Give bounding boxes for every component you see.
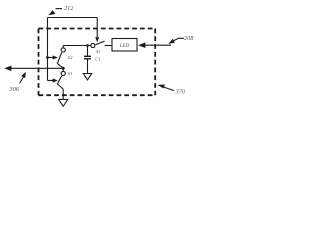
node junction at capacitor tap [86,44,89,47]
switch S1 [62,68,64,71]
wire branch arrow to S2 blade [48,57,54,59]
label 306 arrowhead [21,72,26,78]
svg-text:212: 212 [64,5,74,12]
label 208 arrowhead [168,39,175,44]
capacitor C1 [87,46,89,57]
svg-text:S3: S3 [96,49,101,54]
svg-text:C1: C1 [95,57,100,62]
svg-text:S1: S1 [68,71,73,76]
LED indicator box [112,39,137,52]
label 208 leader [174,38,185,41]
wire from right entering LED [145,44,171,46]
label 370 leader [163,87,175,91]
wire left vertical drop [47,18,49,81]
arrowhead exiting left [4,66,11,71]
wire branch arrow to S1 blade [48,80,54,82]
svg-text:370: 370 [175,88,186,95]
ground open arrow below box [59,99,68,106]
dashed enclosure box 370 [39,29,156,96]
wire right vertical drop from rail [96,18,98,39]
svg-text:S2: S2 [68,55,73,60]
wire top rail [48,17,98,19]
switch S3 [91,43,95,47]
label 306 leader [20,76,25,84]
switch S2 [62,46,64,48]
arrowhead pointing left into LED [138,42,145,48]
svg-text:LED: LED [119,44,130,49]
wire horizontal line to 306 [11,67,64,69]
label 370 arrowhead [158,84,165,88]
label 212 arrowhead [48,10,55,15]
arrowhead at S1 [53,78,58,82]
label 212 leader [56,8,63,10]
arrowhead pointing down at S3 [95,37,99,42]
node junction at left drop / S2 arrow [46,56,49,59]
svg-text:208: 208 [184,35,194,42]
wire main node to LED [63,45,91,47]
node junction S1 top [62,67,65,70]
wire S1 to ground arrow [62,89,64,100]
arrowhead at S2 [53,55,58,59]
ground open arrow under C1 [83,74,91,80]
svg-text:306: 306 [9,86,20,93]
